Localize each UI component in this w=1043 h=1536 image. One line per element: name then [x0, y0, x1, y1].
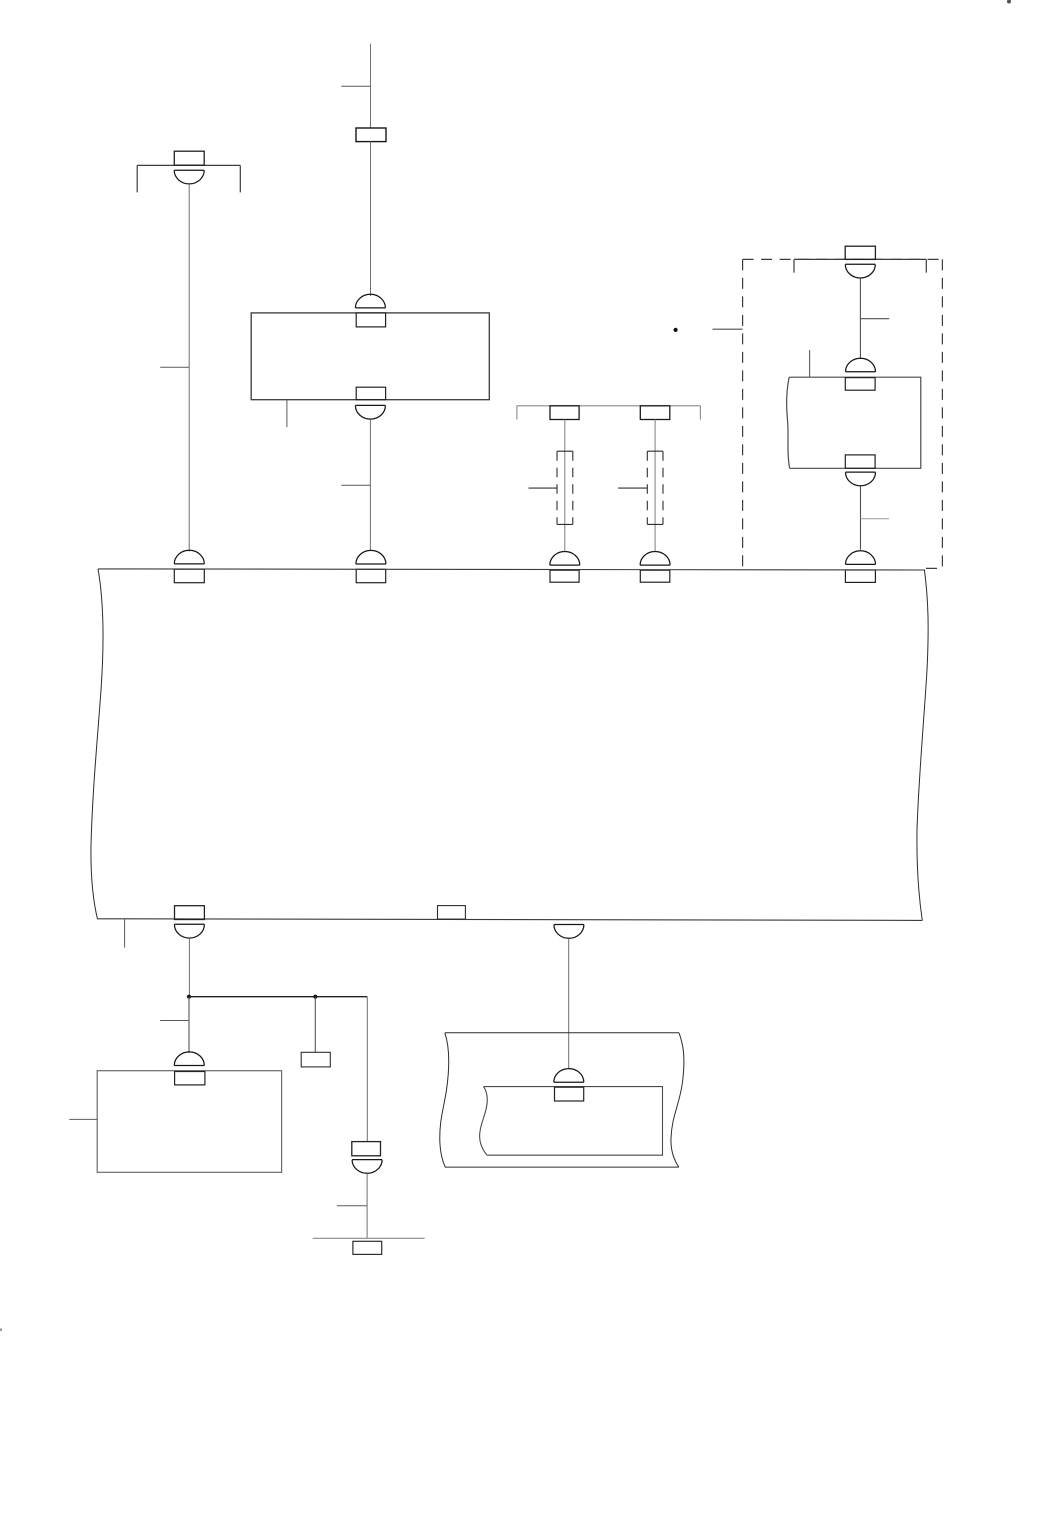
wire W2 top [370, 44, 372, 128]
fuse F2 body [640, 406, 670, 420]
bus harness bottom edge [97, 919, 922, 921]
connector J4 socket at bus [356, 550, 386, 564]
connector J1 socket at bus [174, 550, 204, 564]
wire W2 stub [341, 85, 370, 87]
option enclosure dashed box [743, 259, 943, 568]
fuse F1 stub [529, 487, 558, 489]
inline component R1 [356, 128, 386, 142]
wire W9 [188, 997, 190, 1053]
node A dot [674, 328, 678, 332]
connector J3 socket [355, 405, 385, 419]
page speck top right [1007, 0, 1011, 4]
fuse F2 dashed holder [647, 451, 663, 524]
device box U1 [251, 313, 489, 400]
connector P3 plug body [352, 1142, 381, 1156]
wire W9 stub [160, 1020, 189, 1022]
connector J5 socket at bus [550, 552, 580, 566]
connector J10 plug body on bus bottom [175, 906, 205, 920]
connector P3 socket [352, 1160, 382, 1174]
connector J13 plug body [555, 1087, 584, 1101]
connector J7 socket [846, 358, 876, 372]
connector J2 socket [355, 294, 385, 308]
terminal block TB2 [301, 1052, 330, 1067]
device box U4 inner [480, 1087, 663, 1156]
wire W3 [369, 420, 371, 551]
bus harness right torn edge [917, 570, 928, 920]
connector P2 plug body [845, 246, 875, 259]
wire W12 [366, 1174, 368, 1239]
bus harness left torn edge [91, 569, 103, 919]
connector J9 plug body [845, 570, 875, 582]
connector J6 plug body [640, 570, 670, 582]
connector J11 socket on bus bottom [554, 925, 584, 939]
connector P1 shield bracket [137, 165, 240, 192]
junction bar node B [189, 996, 367, 998]
wire W7 [860, 486, 862, 550]
terminal block TB1 on bus bottom [438, 906, 466, 920]
connector J1 plug body [174, 569, 204, 583]
cable assembly torn box [440, 1033, 684, 1167]
wire W1 stub [160, 366, 189, 368]
connector J12 socket [174, 1052, 204, 1066]
connector J4 plug body [356, 569, 386, 582]
wire W6 stub [860, 318, 889, 320]
connector J3 plug body [356, 387, 385, 400]
fuse F1 dashed holder [557, 451, 573, 524]
connector P1 plug body [174, 151, 204, 165]
ground termination bar [313, 1237, 425, 1239]
wire W4 [564, 420, 566, 551]
connector J6 socket at bus [640, 552, 670, 566]
connector P2 socket [845, 264, 875, 278]
wire W12 stub [337, 1205, 367, 1207]
wire W8 [188, 938, 190, 997]
bus harness top edge [98, 569, 925, 570]
node stub into enclosure [713, 328, 743, 330]
device box U2 pin tick [809, 350, 811, 377]
ground termination block [353, 1241, 382, 1254]
device box U2 [787, 377, 921, 468]
wire W10 [314, 997, 316, 1053]
wire W1 [188, 184, 190, 552]
device box U3 [97, 1071, 281, 1173]
fuse group bracket [517, 406, 701, 420]
connector J8 socket [846, 472, 876, 486]
connector J7 plug body [845, 378, 875, 391]
wire W13 [568, 939, 570, 1069]
fuse F2 stub [618, 487, 647, 489]
connector J10 socket [174, 924, 204, 938]
wire W11 [366, 997, 368, 1142]
wire W3 stub [341, 484, 370, 486]
connector P1 socket [174, 170, 204, 184]
page speck left margin [0, 1329, 2, 1332]
bus pin tick [124, 919, 126, 948]
connector J13 socket [554, 1069, 584, 1083]
node B1 dot [187, 995, 191, 999]
fuse F1 body [550, 406, 579, 420]
device box U1 pin tick [286, 400, 288, 427]
connector J12 plug body [175, 1072, 205, 1085]
connector J5 plug body [550, 570, 579, 582]
connector J8 plug body [845, 455, 875, 468]
wire W6 [859, 278, 861, 359]
wire W5 [654, 420, 656, 551]
connector J2 plug body [356, 313, 385, 327]
wire W2 mid [370, 142, 372, 296]
connector P2 shield bracket [794, 259, 926, 272]
node B2 dot [313, 995, 317, 999]
wire W7 stub [861, 518, 890, 520]
device box U3 pin stub [69, 1118, 97, 1120]
connector J9 socket at bus [846, 551, 876, 565]
